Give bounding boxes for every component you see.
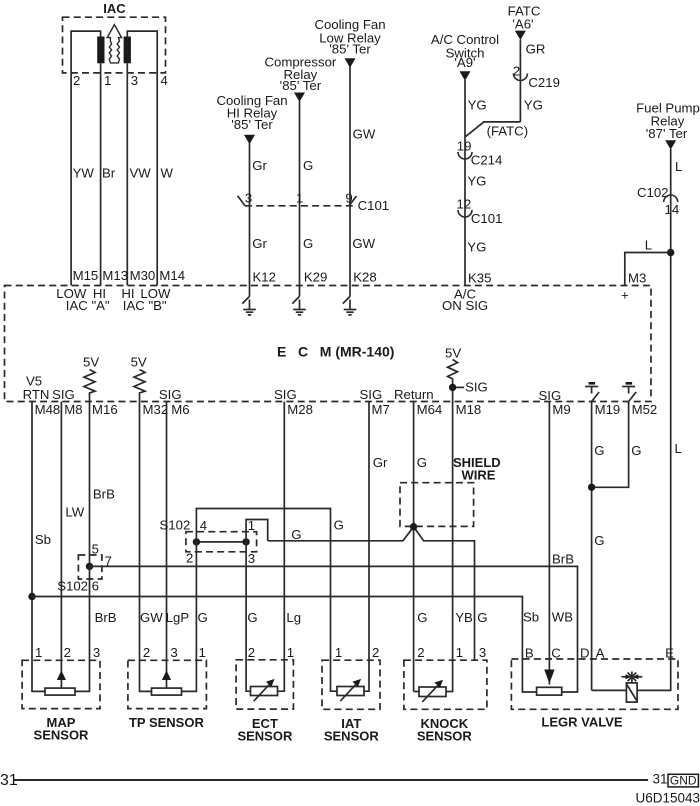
wire G M64 shield return — [413, 402, 415, 692]
svg-text:TP SENSOR: TP SENSOR — [129, 715, 205, 730]
wire BrB S102 pin6 to MAP pin3 — [75, 566, 90, 691]
wire G M19 down — [591, 402, 593, 691]
connector C101 arc — [458, 210, 472, 217]
TP potentiometer — [152, 688, 182, 695]
arrow from Cooling Fan HI Relay — [244, 135, 255, 144]
svg-text:5: 5 — [92, 542, 99, 557]
IAC pintle screw arrow — [107, 25, 121, 63]
svg-text:M18: M18 — [456, 402, 482, 417]
wire M64 tail to knock pin2 — [414, 691, 419, 693]
svg-text:2: 2 — [372, 645, 379, 660]
svg-text:G: G — [594, 443, 604, 458]
svg-text:L: L — [675, 159, 682, 174]
svg-text:C102: C102 — [637, 185, 669, 200]
svg-text:Gr: Gr — [373, 455, 388, 470]
svg-text:G: G — [198, 610, 208, 625]
svg-text:LW: LW — [65, 505, 84, 520]
wire Lg M28 to ECT pin1 — [278, 402, 285, 692]
svg-text:Br: Br — [102, 166, 116, 181]
svg-text:YW: YW — [73, 166, 95, 181]
svg-text:G: G — [417, 455, 427, 470]
wire L branch to M3 — [625, 253, 671, 286]
svg-text:S102: S102 — [57, 579, 88, 594]
junction dot S102 pin1 — [242, 538, 249, 545]
svg-text:4: 4 — [200, 518, 207, 533]
svg-text:M14: M14 — [159, 268, 185, 283]
svg-text:YG: YG — [468, 98, 487, 113]
svg-text:Sb: Sb — [523, 610, 539, 625]
svg-text:YG: YG — [467, 240, 486, 255]
shield ground at M19 — [585, 383, 599, 401]
wire GW cooling fan low to K28 — [349, 67, 351, 286]
svg-text:3: 3 — [479, 645, 486, 660]
svg-text:C219: C219 — [528, 75, 560, 90]
svg-text:31: 31 — [653, 772, 668, 787]
svg-text:14: 14 — [665, 202, 680, 217]
svg-text:19: 19 — [457, 139, 472, 154]
svg-text:GW: GW — [140, 610, 163, 625]
svg-text:W: W — [161, 166, 174, 181]
svg-text:GND: GND — [670, 774, 697, 788]
ground at K29 — [292, 286, 306, 315]
svg-text:BrB: BrB — [93, 487, 115, 502]
IAC coil A top bar — [71, 31, 101, 285]
resistor at M18 — [448, 360, 458, 402]
svg-text:M6: M6 — [171, 402, 189, 417]
junction dot M19 M52 — [588, 484, 595, 491]
MAP sensor dashed box — [22, 660, 100, 708]
junction dot Sb bus — [28, 593, 35, 600]
splice S102 left dashed box — [78, 555, 102, 579]
svg-text:K29: K29 — [304, 270, 327, 285]
connector C101 dashed line — [245, 205, 356, 207]
wire L fuel pump down — [670, 149, 672, 660]
ground at K12 — [242, 286, 256, 315]
svg-text:G: G — [247, 610, 257, 625]
svg-text:M28: M28 — [287, 402, 313, 417]
svg-text:1: 1 — [287, 645, 294, 660]
svg-text:3: 3 — [131, 73, 138, 88]
svg-text:L: L — [675, 441, 682, 456]
svg-text:YB: YB — [455, 610, 473, 625]
svg-text:5V: 5V — [445, 346, 461, 361]
bottom ground rule — [14, 779, 648, 781]
junction dot shield — [410, 523, 417, 530]
wire GR FATC — [519, 40, 521, 122]
svg-text:5V: 5V — [83, 355, 99, 370]
svg-text:M52: M52 — [632, 402, 658, 417]
wire G S102 pin2 to TP pin1 — [182, 542, 197, 692]
svg-text:SIG: SIG — [52, 387, 75, 402]
GND box — [668, 774, 698, 787]
svg-text:2: 2 — [73, 73, 80, 88]
wire Gr M7 to IAT pin2 — [364, 402, 369, 692]
wire IAC pin1 to M13 — [100, 63, 102, 285]
svg-text:SIG: SIG — [360, 387, 383, 402]
svg-text:G: G — [477, 610, 487, 625]
svg-text:M48: M48 — [35, 402, 61, 417]
svg-text:LgP: LgP — [166, 610, 190, 625]
TP wiper arrow — [162, 670, 171, 680]
svg-text:2: 2 — [186, 551, 193, 566]
wire G compressor to K29 — [299, 101, 301, 286]
svg-text:M30: M30 — [130, 268, 156, 283]
connector C102 arc — [664, 195, 678, 202]
svg-text:C101: C101 — [471, 211, 503, 226]
junction dot S102 pin4 — [193, 538, 200, 545]
svg-text:Lg: Lg — [286, 610, 301, 625]
svg-text:1: 1 — [199, 645, 206, 660]
svg-text:G: G — [631, 443, 641, 458]
svg-text:3: 3 — [93, 645, 100, 660]
wire Gr cooling fan HI to K12 — [249, 143, 251, 286]
svg-text:'85' Ter: '85' Ter — [231, 117, 273, 132]
svg-text:C: C — [551, 646, 561, 661]
svg-text:IAC: IAC — [103, 1, 126, 16]
svg-text:IAC "A": IAC "A" — [66, 298, 110, 313]
ECM box — [5, 286, 652, 402]
svg-text:GW: GW — [352, 236, 375, 251]
svg-text:G: G — [291, 527, 301, 542]
svg-text:WB: WB — [552, 610, 573, 625]
IAC coil A winding — [97, 37, 104, 64]
svg-text:SIG: SIG — [274, 387, 297, 402]
SIG label M18 — [456, 386, 464, 388]
svg-text:B: B — [525, 646, 534, 661]
svg-text:M15: M15 — [73, 268, 99, 283]
LEGR solenoid coil — [626, 683, 637, 702]
svg-text:ON SIG: ON SIG — [442, 298, 488, 313]
G shield bus to knock shield — [268, 527, 475, 661]
splice S102 right dashed box — [186, 532, 257, 552]
svg-text:'A9': 'A9' — [454, 55, 475, 70]
svg-text:M13: M13 — [102, 268, 128, 283]
LEGR vent symbol — [622, 672, 643, 683]
wire G tail to solenoid — [592, 689, 627, 691]
wire YB M18 to knock pin1 — [446, 402, 453, 692]
arrow from fuel pump relay — [665, 140, 676, 149]
svg-text:G: G — [303, 236, 313, 251]
svg-text:A: A — [596, 646, 605, 661]
svg-text:K28: K28 — [353, 270, 376, 285]
resistor at M16 — [84, 370, 95, 402]
wire G S102 pin4 riser to IAT pin1 — [196, 509, 337, 692]
svg-text:K35: K35 — [468, 271, 491, 286]
svg-text:LEGR VALVE: LEGR VALVE — [541, 715, 622, 730]
svg-text:Gr: Gr — [252, 158, 267, 173]
svg-text:RTN: RTN — [23, 387, 50, 402]
MAP wiper arrow — [57, 670, 66, 680]
IAT sensor dashed box — [322, 660, 380, 709]
svg-text:SENSOR: SENSOR — [417, 729, 473, 744]
arrow from Cooling Fan Low Relay — [345, 58, 356, 67]
svg-text:S102: S102 — [160, 518, 191, 533]
svg-text:G: G — [334, 518, 344, 533]
svg-text:VW: VW — [130, 166, 152, 181]
svg-text:'87' Ter: '87' Ter — [646, 126, 688, 141]
KNOCK element arrow — [422, 683, 439, 702]
svg-text:'A6': 'A6' — [512, 17, 533, 32]
svg-text:G: G — [594, 533, 604, 548]
ground at K28 — [343, 286, 357, 315]
junction dot fuel pump L — [667, 249, 674, 256]
LEGR valve dashed box — [511, 659, 678, 709]
svg-text:SIG: SIG — [465, 380, 488, 395]
svg-text:U6D15043: U6D15043 — [635, 791, 700, 806]
svg-text:Gr: Gr — [252, 236, 267, 251]
svg-text:1: 1 — [456, 645, 463, 660]
svg-text:2: 2 — [143, 645, 150, 660]
svg-text:C214: C214 — [471, 153, 503, 168]
svg-text:L: L — [645, 238, 652, 253]
svg-text:C101: C101 — [358, 198, 390, 213]
BrB bus S102 pin7 to LEGR D — [90, 566, 578, 692]
C101 right end tick — [349, 196, 357, 206]
S102 right splice bar — [196, 541, 246, 543]
wire GW M32 to TP pin2 — [140, 402, 152, 692]
svg-text:M3: M3 — [628, 271, 646, 286]
svg-text:M7: M7 — [372, 402, 390, 417]
svg-text:6: 6 — [92, 579, 99, 594]
LEGR potentiometer — [537, 687, 562, 695]
svg-text:2: 2 — [248, 645, 255, 660]
svg-text:12: 12 — [457, 197, 472, 212]
svg-text:3: 3 — [245, 191, 252, 206]
svg-text:9: 9 — [345, 191, 352, 206]
svg-text:Return: Return — [394, 387, 434, 402]
C101 left end tick — [238, 196, 245, 206]
shield wire dashed box — [400, 483, 474, 527]
svg-text:2: 2 — [417, 645, 424, 660]
TP sensor dashed box — [128, 660, 206, 708]
svg-text:YG: YG — [467, 174, 486, 189]
svg-text:BrB: BrB — [552, 552, 574, 567]
svg-text:G: G — [303, 158, 313, 173]
connector C219 arc — [513, 74, 527, 81]
svg-text:2: 2 — [513, 64, 520, 79]
wire Sb M48 to MAP pin1 — [32, 402, 45, 692]
svg-text:GW: GW — [353, 127, 376, 142]
svg-text:5V: 5V — [131, 355, 147, 370]
svg-text:SENSOR: SENSOR — [34, 728, 90, 743]
svg-text:SIG: SIG — [159, 387, 182, 402]
ECT thermistor — [251, 687, 278, 696]
svg-text:+: + — [621, 288, 629, 303]
svg-text:'85' Ter: '85' Ter — [329, 42, 371, 57]
svg-text:YG: YG — [524, 98, 543, 113]
svg-text:WIRE: WIRE — [462, 468, 496, 483]
LEGR wiper arrow — [544, 670, 554, 684]
KNOCK element — [419, 687, 446, 697]
wire YG A/C switch down — [464, 80, 466, 286]
IAC coil B top bar — [127, 31, 157, 285]
arrow from Compressor Relay — [294, 93, 305, 102]
svg-text:3: 3 — [248, 551, 255, 566]
svg-text:3: 3 — [170, 645, 177, 660]
wire G S102 pin1 jog to shield bus — [246, 520, 268, 542]
shield ground at M52 — [622, 383, 636, 401]
MAP potentiometer — [45, 688, 75, 695]
svg-text:E C M (MR-140): E C M (MR-140) — [277, 344, 394, 360]
wire BrB M16 to S102 pin5 — [89, 402, 91, 568]
Sb return bus to LEGR B — [32, 597, 537, 693]
arrow from FATC — [515, 31, 526, 40]
wire L tail to solenoid — [637, 660, 671, 690]
svg-text:'85' Ter: '85' Ter — [280, 78, 322, 93]
svg-text:M16: M16 — [92, 402, 118, 417]
svg-text:M9: M9 — [552, 402, 570, 417]
svg-text:(FATC): (FATC) — [487, 124, 529, 139]
wire WB M9 to LEGR C — [548, 402, 550, 685]
svg-text:D: D — [580, 646, 590, 661]
svg-text:BrB: BrB — [95, 610, 117, 625]
svg-text:M32: M32 — [143, 402, 169, 417]
ECT thermistor arrow — [254, 683, 271, 702]
svg-text:SENSOR: SENSOR — [237, 729, 293, 744]
junction dot S102 left — [86, 563, 93, 570]
svg-text:M64: M64 — [417, 402, 443, 417]
svg-text:G: G — [417, 610, 427, 625]
svg-text:K12: K12 — [253, 270, 276, 285]
resistor at M32 — [134, 370, 145, 402]
svg-text:4: 4 — [161, 73, 168, 88]
svg-text:SIG: SIG — [539, 388, 562, 403]
arrow from A/C control switch — [460, 71, 471, 80]
svg-text:1: 1 — [296, 191, 303, 206]
connector C214 arc — [458, 152, 472, 159]
svg-text:2: 2 — [64, 645, 71, 660]
wire IAC pin3 to M30 — [126, 63, 128, 285]
svg-text:1: 1 — [104, 73, 111, 88]
wire G S102 pin3 to ECT pin2 — [246, 542, 250, 691]
svg-text:1: 1 — [35, 645, 42, 660]
svg-text:1: 1 — [335, 645, 342, 660]
svg-text:GR: GR — [526, 42, 546, 57]
IAC coil B winding — [124, 37, 131, 64]
svg-text:Sb: Sb — [35, 532, 51, 547]
wire LgP M6 to TP pin3 — [166, 402, 168, 689]
IAC dashed box — [63, 17, 166, 73]
svg-text:M19: M19 — [595, 402, 621, 417]
svg-text:SENSOR: SENSOR — [324, 729, 380, 744]
FATC wire jog to A/C wire — [465, 122, 520, 137]
svg-text:IAC "B": IAC "B" — [123, 298, 167, 313]
KNOCK sensor dashed box — [404, 660, 487, 709]
wire G M52 jog to M19 — [592, 402, 629, 488]
svg-text:E: E — [665, 646, 674, 661]
ECT sensor dashed box — [236, 660, 293, 709]
wire LW M8 to MAP pin2 — [60, 402, 62, 689]
IAT thermistor — [337, 687, 364, 696]
IAT thermistor arrow — [340, 683, 357, 702]
junction dot at M18 pullup — [449, 384, 456, 391]
svg-text:M8: M8 — [64, 402, 82, 417]
